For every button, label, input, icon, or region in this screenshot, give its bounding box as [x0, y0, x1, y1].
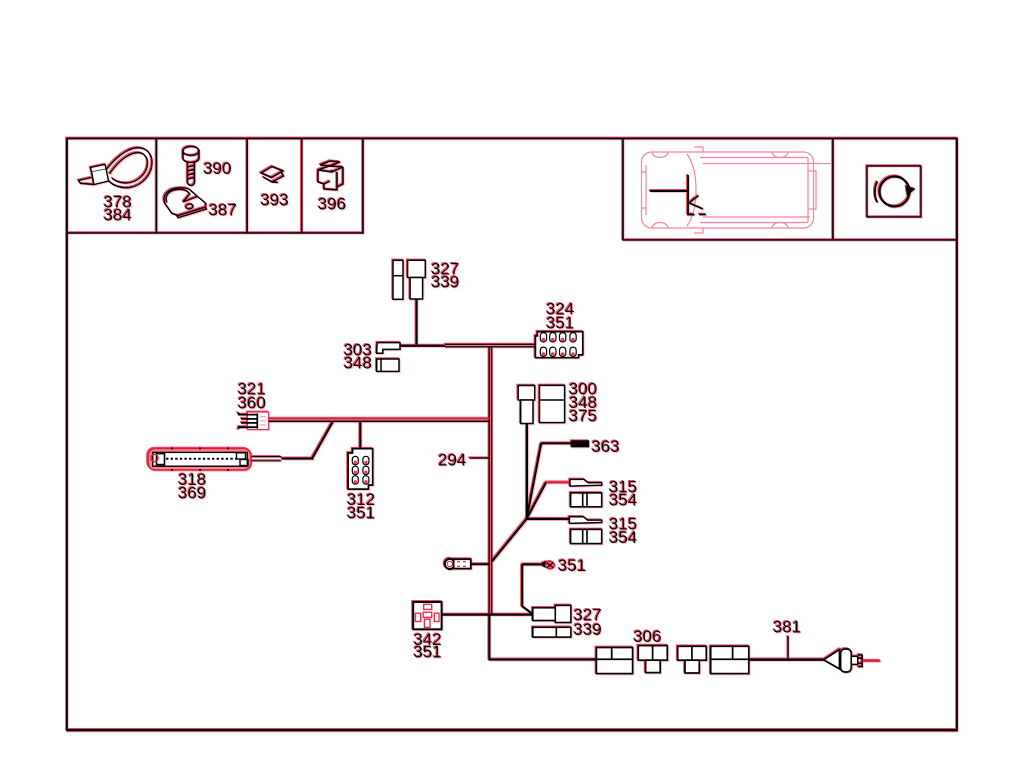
svg-text:294: 294 [438, 450, 466, 469]
svg-text:351: 351 [546, 313, 574, 332]
connector row 1 [596, 648, 632, 674]
connector 339 bottom [533, 627, 571, 637]
connector row 4 [711, 646, 749, 673]
double wire from 321 to trunk [269, 419, 490, 422]
box 354 lower [571, 529, 602, 543]
label 327 339 bottom [573, 605, 601, 639]
outer border frame [67, 139, 957, 731]
comb pins [540, 333, 576, 357]
svg-text:354: 354 [609, 528, 637, 547]
main wire to comb [400, 345, 445, 347]
connector 327 bottom [533, 605, 571, 622]
location mark in vehicle [650, 175, 706, 215]
trunk double line 294 [489, 347, 492, 614]
svg-text:348: 348 [344, 354, 372, 373]
label 327 339 (top) [431, 259, 459, 291]
connector 321/360 [237, 412, 269, 430]
connector 300 left [518, 386, 535, 424]
screw 390 [183, 147, 199, 186]
svg-text:393: 393 [260, 191, 288, 210]
svg-text:351: 351 [558, 556, 586, 575]
clip 393 [261, 167, 284, 183]
sleeve from 318 [252, 457, 282, 461]
svg-text:381: 381 [773, 618, 801, 637]
label 315 354 lower [609, 515, 637, 547]
connector 318/369 long strip [148, 448, 251, 472]
wire to 315 upper [546, 481, 570, 483]
legend box dividers [67, 139, 363, 234]
label 396 [318, 195, 346, 214]
label 324 351 [546, 300, 574, 333]
svg-text:339: 339 [431, 272, 459, 291]
connector 312/351 [348, 449, 373, 489]
label 351 oval [558, 556, 586, 575]
svg-text:375: 375 [569, 407, 597, 426]
svg-text:369: 369 [178, 484, 206, 503]
connector row 3 [678, 646, 707, 673]
wire to 315 lower [527, 518, 570, 520]
clip 396 [318, 161, 343, 190]
label 306 [633, 627, 661, 646]
connector 327 (top, with 339) [393, 260, 425, 299]
svg-text:351: 351 [413, 643, 441, 662]
terminal 315 upper [570, 479, 602, 486]
svg-text:360: 360 [238, 394, 266, 413]
label 390 [203, 159, 231, 178]
connector 348 (left) [377, 359, 399, 371]
label 387 [209, 201, 237, 220]
label 393 [260, 191, 288, 210]
thin harness wire (outline) [445, 344, 535, 347]
clamp 387 [164, 188, 207, 218]
branch diagonal to 318 [281, 422, 333, 459]
cable tie icon 378/384 [79, 148, 153, 188]
terminal 351 oval [542, 561, 555, 569]
fitting 381 [824, 649, 881, 672]
svg-text:306: 306 [633, 627, 661, 646]
label 363 [591, 437, 619, 456]
label 303 348 [344, 340, 372, 372]
connector 342/351 [413, 602, 441, 629]
wire from 327 down [416, 299, 418, 346]
vehicle outline (pink) [642, 147, 834, 233]
red chroma ghost copies [67, 139, 957, 731]
label 300 348 375 [569, 380, 597, 426]
branch vertical to 312 [359, 422, 361, 449]
label 378 384 [104, 192, 132, 224]
box 354 upper [571, 493, 602, 507]
svg-text:384: 384 [104, 206, 132, 225]
connector 300 right [540, 385, 565, 422]
connector 324/351 comb [535, 332, 582, 358]
terminal 315 lower [569, 517, 601, 524]
label 381 with leader [773, 618, 801, 659]
connector 303 [377, 343, 400, 354]
wire 300 to junction [526, 424, 528, 520]
svg-text:339: 339 [573, 620, 601, 639]
label 321 360 [238, 379, 266, 412]
svg-text:387: 387 [209, 201, 237, 220]
label 315 354 upper [609, 477, 637, 509]
svg-text:396: 396 [318, 195, 346, 214]
label 318 369 [178, 470, 206, 502]
svg-text:363: 363 [591, 437, 619, 456]
vehicle box [623, 139, 957, 241]
svg-text:351: 351 [347, 504, 375, 523]
ring terminal branch [445, 559, 490, 569]
label 294 with leader [438, 450, 489, 469]
wire 342 to 327 [442, 614, 533, 616]
branch to 351 oval [522, 564, 542, 614]
wire and terminal 363 [541, 440, 589, 447]
312 pins [352, 456, 369, 484]
svg-text:390: 390 [203, 159, 231, 178]
svg-text:354: 354 [609, 491, 637, 510]
wire to 381 fitting [749, 659, 824, 661]
label 312 351 [347, 490, 375, 522]
rotation icon [867, 166, 921, 217]
junction fan [492, 443, 546, 561]
trunk bottom wire [489, 614, 596, 660]
label 342 351 [413, 630, 441, 662]
connector row 2 (306) [638, 646, 667, 673]
